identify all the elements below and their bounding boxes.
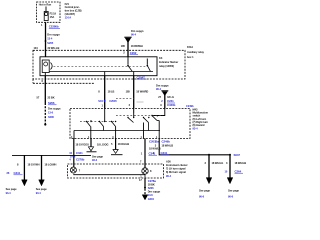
svg-text:Central junc-: Central junc- <box>65 5 80 9</box>
svg-text:22 BK: 22 BK <box>48 95 55 99</box>
wire 22 BK to splice <box>44 95 46 103</box>
svg-text:104: 104 <box>34 46 39 50</box>
svg-text:90-4: 90-4 <box>166 174 172 178</box>
wire hazard out to S047 <box>159 139 230 155</box>
aux relay box label <box>187 45 204 59</box>
svg-text:93-4: 93-4 <box>193 126 199 130</box>
wire 18 LG <box>164 94 166 109</box>
wire LF turn off page <box>90 139 92 147</box>
see page left 1 <box>6 187 18 195</box>
wire flasher box to switch pin 6 <box>44 73 46 76</box>
connector C2280b <box>49 25 60 29</box>
splice dot on ground wire <box>144 187 146 189</box>
svg-text:Indicator flasher: Indicator flasher <box>159 60 178 64</box>
svg-text:93-4: 93-4 <box>36 191 42 195</box>
ground wire 18 BK <box>144 178 146 186</box>
multifunction switch label <box>193 108 209 131</box>
wire label 57 22 BK <box>37 95 55 99</box>
svg-text:13-14: 13-14 <box>65 15 72 19</box>
svg-text:S-04: S-04 <box>70 154 76 158</box>
switch contact a <box>86 120 92 127</box>
svg-text:C2280b: C2280b <box>49 25 59 29</box>
labels 18 GY/WH <box>17 162 56 166</box>
svg-text:C264: C264 <box>235 169 242 173</box>
svg-text:Drn supgn: Drn supgn <box>48 106 61 110</box>
label 3 18 WH/LB <box>226 161 246 165</box>
relay contact 2 <box>147 59 151 72</box>
svg-text:C341: C341 <box>161 151 168 155</box>
wire label 8 18 LB <box>98 90 114 94</box>
svg-text:Drn supgn: Drn supgn <box>148 190 161 194</box>
svg-text:18 LG/WH: 18 LG/WH <box>45 162 57 166</box>
svg-text:C2047: C2047 <box>137 75 146 79</box>
svg-text:C202: C202 <box>130 51 137 55</box>
connector C241 <box>161 99 175 103</box>
svg-text:S04: S04 <box>98 99 103 103</box>
svg-text:13-6: 13-6 <box>48 110 54 114</box>
off page arrow left 1 <box>22 180 28 186</box>
wire W1 fuse to flasher box <box>45 22 47 57</box>
K3 flasher relay solid box <box>40 57 157 76</box>
svg-text:S047: S047 <box>234 153 241 157</box>
svg-text:Hot in Run: Hot in Run <box>39 3 52 7</box>
svg-text:F2.19: F2.19 <box>50 12 57 16</box>
connector C2047 <box>137 75 147 79</box>
CJB text block <box>65 2 82 20</box>
connector C249b <box>155 140 170 144</box>
pin 10 C264 <box>225 169 244 173</box>
ground labels <box>148 179 161 201</box>
switch contact f <box>151 115 158 121</box>
steering column dashed boundary remnant <box>33 79 95 83</box>
flasher unit symbol <box>42 60 52 73</box>
off page arrow right 1 <box>206 178 212 184</box>
svg-text:box 1: box 1 <box>187 55 194 59</box>
cluster label <box>166 159 188 177</box>
K3 label <box>159 56 178 68</box>
svg-text:Drn supgn: Drn supgn <box>131 29 144 33</box>
in-line connector symbol right <box>161 91 168 96</box>
svg-text:C278b: C278b <box>76 158 85 162</box>
svg-text:18 OG/LB: 18 OG/LB <box>118 142 130 146</box>
svg-text:S206: S206 <box>48 101 55 105</box>
LH indicator lamp <box>70 167 80 173</box>
ground arrow G204 <box>142 195 148 200</box>
relay contact 1 <box>127 57 132 72</box>
relay internal bus <box>49 71 153 73</box>
svg-text:F21: F21 <box>65 2 70 6</box>
connector C202 <box>130 51 138 55</box>
svg-text:C341: C341 <box>76 151 83 155</box>
svg-text:90-6: 90-6 <box>199 195 205 199</box>
svg-text:C2045: C2045 <box>109 99 117 103</box>
connector C341 mid <box>153 151 169 155</box>
svg-text:tion box (CJB): tion box (CJB) <box>65 9 82 13</box>
see page 93-3 <box>92 155 104 162</box>
labels 5 18 OG/LB <box>111 142 129 146</box>
instrument cluster dashed box <box>68 164 164 178</box>
wire RH indicator <box>144 139 146 168</box>
svg-text:18 LB: 18 LB <box>108 90 115 94</box>
wire label 104 22 WH-LB <box>34 46 60 50</box>
see page left 2 <box>36 187 48 195</box>
svg-text:18 GY/WH: 18 GY/WH <box>28 162 40 166</box>
svg-text:S206: S206 <box>48 115 54 119</box>
fuse F2.19 15A <box>44 7 56 21</box>
splice S04 label <box>98 99 117 103</box>
svg-text:S206: S206 <box>148 186 154 190</box>
svg-text:13-6: 13-6 <box>148 193 154 197</box>
off page arrow RF <box>111 150 123 155</box>
splice note S205 <box>45 33 61 46</box>
fuse box F2.19 dashed enclosure <box>37 2 61 22</box>
switch exit pin digits <box>71 136 158 139</box>
wire label 185 18 RD/WH <box>121 44 143 48</box>
pin 1 C341 <box>141 151 157 155</box>
splice S047 <box>208 153 240 157</box>
cluster ground bus <box>74 174 145 178</box>
svg-text:18 WH/LB: 18 WH/LB <box>235 161 247 165</box>
incoming feed note see page <box>131 29 144 37</box>
svg-text:93-3: 93-3 <box>92 158 98 162</box>
svg-text:C249b: C249b <box>162 140 171 144</box>
off page arrow left 2 <box>39 180 45 186</box>
svg-text:22 WH-LB: 22 WH-LB <box>48 46 60 50</box>
svg-text:See page: See page <box>228 188 240 192</box>
dashed link between wires <box>116 97 134 99</box>
connector stack C341 <box>69 151 84 162</box>
svg-text:185: 185 <box>121 44 126 48</box>
mechanical link dashed inside switch <box>80 121 116 123</box>
svg-text:See page: See page <box>199 188 211 192</box>
svg-text:F21A: F21A <box>187 45 193 49</box>
wire label 185 18 WH/RD <box>126 90 149 94</box>
faint label underline <box>137 101 144 103</box>
svg-text:A36: A36 <box>166 159 171 163</box>
off page arrow LF <box>87 147 97 152</box>
svg-text:90-6: 90-6 <box>228 195 234 199</box>
labels 18 GY/OG 16 <box>76 142 109 146</box>
svg-text:93-4: 93-4 <box>6 191 12 195</box>
off page arrow right 2 <box>227 178 233 184</box>
svg-text:C249b: C249b <box>186 104 194 108</box>
pin 17 ground exit <box>139 175 142 182</box>
svg-text:13-4: 13-4 <box>47 37 53 41</box>
svg-text:(14A067): (14A067) <box>65 12 76 16</box>
multifunction switch dashed box <box>70 109 190 139</box>
svg-text:C278a: C278a <box>148 179 157 183</box>
svg-text:90-4: 90-4 <box>131 33 137 37</box>
svg-text:18 LG/OG: 18 LG/OG <box>97 142 109 146</box>
switch internal bus <box>74 130 160 132</box>
left lamp wire 2 <box>41 155 43 180</box>
wire below relay box right 18 LG <box>156 83 169 91</box>
svg-text:See page: See page <box>36 187 48 191</box>
svg-text:185: 185 <box>126 90 131 94</box>
switch contact c <box>111 121 117 127</box>
bottom left bus <box>12 154 91 156</box>
svg-text:18 WH/RD: 18 WH/RD <box>136 90 148 94</box>
svg-text:18 GY/OG: 18 GY/OG <box>76 142 88 146</box>
mechanical link dashed inside relay <box>54 65 149 67</box>
label 3 18 WH/LG <box>205 161 224 165</box>
switch wire entry stubs <box>133 109 135 114</box>
svg-text:G204: G204 <box>148 197 155 201</box>
svg-text:18 BK: 18 BK <box>148 182 155 186</box>
svg-text:C340b: C340b <box>167 103 176 107</box>
wire to cluster LH lamp <box>73 139 75 168</box>
wire drop right 1 <box>208 155 210 179</box>
svg-text:S205: S205 <box>47 41 53 45</box>
wire RF turn off page <box>115 139 117 150</box>
left lamp wire 1 <box>23 155 25 180</box>
in-line connector symbol top <box>124 37 131 43</box>
wire label 3 18 WH/LB <box>155 143 174 147</box>
svg-text:Drn supgn: Drn supgn <box>47 33 60 37</box>
svg-text:15A: 15A <box>50 15 55 19</box>
RH indicator lamp <box>142 168 152 174</box>
svg-text:18 WH/LG: 18 WH/LG <box>212 161 224 165</box>
switch contact b <box>99 109 106 127</box>
wire relay out 18 WH/RD <box>133 72 135 76</box>
svg-text:See page: See page <box>92 155 104 159</box>
switch contact e <box>143 117 150 123</box>
svg-text:18 WH/LB: 18 WH/LB <box>162 143 174 147</box>
connector C341 left <box>7 171 23 175</box>
splice S206 <box>44 101 61 126</box>
svg-text:Auxiliary relay: Auxiliary relay <box>187 50 204 54</box>
svg-text:See page: See page <box>6 187 18 191</box>
svg-text:Drn supgn: Drn supgn <box>156 83 169 87</box>
wire label 27 18 LG <box>158 95 174 99</box>
svg-text:8) RH turn signal: 8) RH turn signal <box>166 170 186 174</box>
wire drop right 2 <box>229 155 231 179</box>
hazard feed path inside <box>152 109 165 116</box>
auxiliary relay box 1 dashed enclosure <box>33 50 185 79</box>
pin 9 at C340b <box>160 103 175 107</box>
svg-text:C341: C341 <box>14 171 21 175</box>
svg-text:relay (13350): relay (13350) <box>159 64 174 68</box>
see page right 1 <box>199 188 211 198</box>
svg-text:(6) Hazard: (6) Hazard <box>193 123 205 127</box>
svg-text:90-4: 90-4 <box>156 87 162 91</box>
wire relay feed <box>127 41 129 57</box>
svg-text:Instrument cluster: Instrument cluster <box>166 163 188 167</box>
see page right 2 <box>228 188 240 198</box>
svg-text:18 RD/WH: 18 RD/WH <box>131 44 143 48</box>
wire relay out left 18 LB <box>104 72 106 76</box>
bus risers <box>74 121 159 139</box>
switch contact d <box>127 113 134 123</box>
svg-text:7) LH turn signal: 7) LH turn signal <box>166 167 186 171</box>
